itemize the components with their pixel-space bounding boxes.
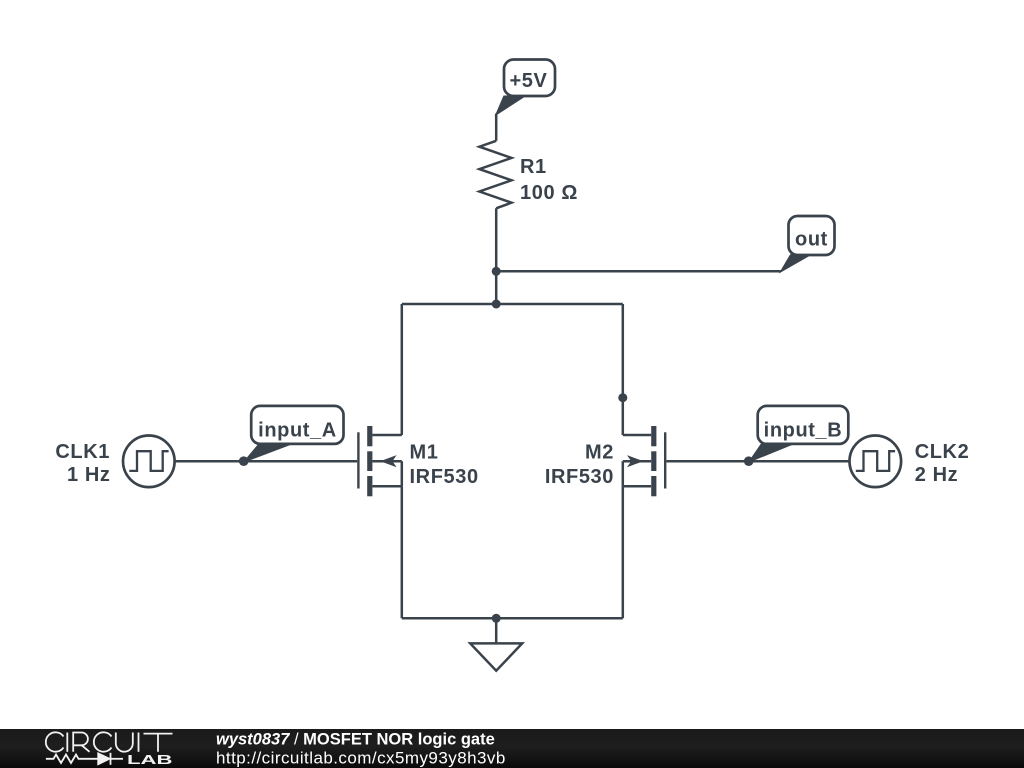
junction dot input_A — [239, 456, 249, 466]
svg-text:+5V: +5V — [510, 70, 548, 92]
footer bar — [0, 729, 1024, 768]
wire out node to flag — [496, 270, 781, 273]
wire CLK2 to M2 gate — [666, 460, 849, 463]
svg-text:100 Ω: 100 Ω — [520, 182, 578, 204]
junction dot input_B — [744, 456, 754, 466]
net flag out — [781, 216, 835, 272]
svg-text:M1: M1 — [410, 441, 439, 463]
wire top rail — [402, 303, 623, 306]
junction dot bottom rail — [492, 614, 501, 623]
logo resistor-diode glyph — [46, 753, 123, 765]
svg-text:2 Hz: 2 Hz — [915, 464, 959, 486]
wire bottom rail — [402, 617, 623, 620]
ground — [470, 618, 522, 670]
svg-text:LAB: LAB — [127, 752, 173, 767]
junction dot on M2 drain wire — [618, 393, 627, 402]
svg-text:IRF530: IRF530 — [410, 466, 479, 488]
svg-text:out: out — [795, 228, 828, 250]
wire M2 source down — [622, 486, 625, 618]
node out: junction dot — [492, 267, 501, 276]
svg-text:input_A: input_A — [258, 420, 337, 442]
wire M1 source down — [401, 486, 404, 618]
mosfet M2 — [623, 426, 665, 496]
svg-text:CLK1: CLK1 — [55, 441, 110, 463]
wire +5V tail to resistor top — [495, 114, 498, 141]
wire CLK1 to M1 gate — [175, 460, 358, 463]
svg-text:wyst0837 / MOSFET NOR logic ga: wyst0837 / MOSFET NOR logic gate — [216, 731, 495, 749]
net flag input_A — [245, 406, 344, 462]
wire M2 drain up — [622, 304, 625, 435]
svg-text:CLK2: CLK2 — [915, 441, 970, 463]
svg-text:IRF530: IRF530 — [545, 466, 614, 488]
svg-text:input_B: input_B — [764, 420, 843, 442]
resistor R1 — [479, 141, 511, 209]
clock source CLK1 — [123, 436, 175, 488]
net flag input_B — [750, 406, 849, 462]
svg-text:1 Hz: 1 Hz — [67, 464, 111, 486]
mosfet M1 — [358, 426, 401, 496]
net flag +5V — [496, 60, 555, 115]
junction dot top rail — [492, 300, 501, 309]
svg-text:R1: R1 — [520, 156, 547, 178]
svg-text:http://circuitlab.com/cx5my93y: http://circuitlab.com/cx5my93y8h3vb — [216, 749, 506, 768]
clock source CLK2 — [850, 436, 902, 488]
wire M1 drain up — [401, 304, 404, 435]
logo CIRCUIT text — [46, 732, 173, 752]
svg-text:M2: M2 — [585, 441, 614, 463]
wire resistor to top rail — [495, 208, 498, 304]
